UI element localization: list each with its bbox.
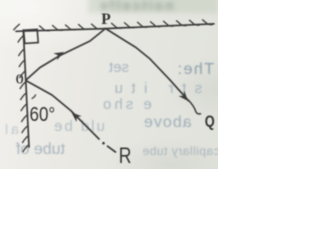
dash-dot continuation toward R bbox=[108, 146, 116, 152]
angle tick bbox=[32, 95, 36, 99]
svg-text:R: R bbox=[119, 144, 132, 168]
arrowhead on P-Q ray bbox=[178, 91, 190, 104]
dot of dash-dot bbox=[102, 142, 105, 145]
subtle paper mottling bbox=[0, 0, 218, 169]
left mirror hatching bbox=[18, 36, 28, 152]
ray P to Q bbox=[106, 29, 189, 101]
ray R to O (solid part) bbox=[26, 81, 99, 140]
right-angle square at corner bbox=[24, 29, 39, 43]
svg-text:Q: Q bbox=[205, 113, 215, 131]
horizontal mirror line bbox=[16, 24, 214, 32]
ghost fragment: set bbox=[109, 59, 129, 76]
arrowhead on O-P ray bbox=[53, 49, 191, 122]
top shaded band (show-through heading) bbox=[88, 0, 218, 13]
ghost line: e sho bbox=[100, 96, 152, 113]
ghost line: u s t r bbox=[106, 80, 232, 97]
ghost line: capilla bbox=[142, 144, 220, 158]
ghost line: The bbox=[176, 61, 214, 79]
ghost faint fragment bottom-left bbox=[2, 121, 19, 137]
ghost line: above bbox=[143, 114, 192, 132]
vertical mirror line bbox=[23, 30, 29, 147]
top mirror hatching bbox=[14, 20, 213, 31]
svg-text:O: O bbox=[16, 71, 24, 87]
ghost line: tube of bbox=[16, 141, 65, 159]
arrowhead on R-O ray (points toward O) bbox=[69, 110, 82, 122]
svg-text:60°: 60° bbox=[30, 103, 56, 126]
svg-text:P: P bbox=[101, 11, 111, 28]
ray O to P bbox=[26, 29, 106, 81]
ray P-Q tail hook bbox=[189, 100, 201, 114]
